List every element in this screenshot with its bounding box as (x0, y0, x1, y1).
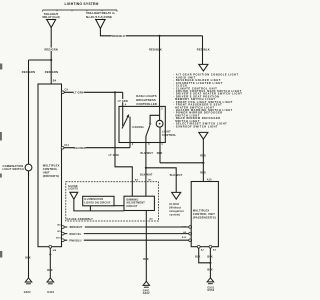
svg-text:LIGHT SWITCH: LIGHT SWITCH (3, 167, 24, 171)
svg-text:LIGHTING SYSTEM: LIGHTING SYSTEM (64, 2, 98, 6)
svg-text:2: 2 (161, 108, 163, 111)
svg-text:(PASSENGER'S): (PASSENGER'S) (193, 215, 216, 219)
svg-text:BLK: BLK (25, 256, 31, 259)
svg-text:A4: A4 (149, 218, 153, 221)
svg-text:G401: G401 (47, 291, 54, 294)
svg-text:BRIGHTNESS: BRIGHTNESS (136, 98, 156, 102)
svg-text:3: 3 (132, 143, 134, 146)
svg-text:G552: G552 (207, 289, 214, 292)
svg-text:RED/GRN: RED/GRN (22, 70, 36, 74)
svg-text:ILLUMINATION: ILLUMINATION (84, 198, 103, 201)
svg-text:RED: RED (200, 171, 206, 174)
svg-text:A3: A3 (213, 248, 217, 251)
svg-text:PNK/BLU: PNK/BLU (69, 239, 81, 242)
svg-text:BLK/WHT: BLK/WHT (141, 152, 154, 155)
svg-text:B6: B6 (58, 225, 62, 227)
svg-text:RED/YEL: RED/YEL (70, 233, 82, 236)
svg-text:A10: A10 (207, 179, 212, 182)
svg-text:RED/BLK: RED/BLK (197, 48, 210, 52)
svg-text:RED/BLK: RED/BLK (112, 34, 125, 38)
svg-text:BLK: BLK (143, 258, 149, 261)
svg-text:B10: B10 (56, 238, 61, 240)
svg-text:B5: B5 (58, 231, 62, 233)
svg-text:CONTROL UNIT: CONTROL UNIT (193, 212, 215, 216)
svg-text:A12: A12 (182, 225, 187, 228)
svg-text:UNIT: UNIT (43, 170, 50, 174)
svg-text:CONTROL: CONTROL (162, 133, 177, 137)
svg-text:DASH LIGHTS: DASH LIGHTS (136, 94, 157, 98)
svg-text:LIGHT: LIGHT (162, 130, 171, 134)
svg-text:RED/GRN: RED/GRN (45, 70, 59, 74)
svg-text:BLK/WHT: BLK/WHT (170, 174, 183, 177)
svg-text:LT GRN: LT GRN (73, 91, 83, 94)
svg-text:RELAY (Coil): RELAY (Coil) (42, 15, 59, 19)
svg-text:RED: RED (200, 154, 206, 157)
svg-text:A10: A10 (182, 236, 187, 239)
svg-text:RED/GRN: RED/GRN (44, 48, 58, 52)
svg-text:LT GRN: LT GRN (118, 100, 128, 103)
svg-text:MULTIPLEX: MULTIPLEX (193, 209, 210, 213)
svg-text:BLK: BLK (207, 255, 213, 258)
svg-text:RED/BLK: RED/BLK (149, 48, 162, 52)
svg-text:BLK: BLK (47, 269, 53, 272)
svg-text:BLK/WHT: BLK/WHT (140, 174, 153, 177)
svg-text:B1: B1 (148, 180, 152, 182)
svg-text:· SUNROOF SWITCH LIGHT: · SUNROOF SWITCH LIGHT (173, 125, 218, 128)
svg-text:navigation: navigation (169, 210, 184, 213)
svg-text:RED: RED (157, 152, 163, 155)
svg-text:CIRCUIT: CIRCUIT (126, 205, 138, 208)
svg-text:M8: M8 (53, 250, 57, 252)
svg-text:B2: B2 (135, 180, 139, 182)
svg-text:1: 1 (161, 143, 163, 146)
svg-text:LIGHTS ON CIRCUIT: LIGHTS ON CIRCUIT (84, 202, 111, 204)
svg-text:GAUGE ASSEMBLY: GAUGE ASSEMBLY (67, 218, 94, 221)
svg-text:No.40 (7.5 A) FUSE: No.40 (7.5 A) FUSE (86, 15, 112, 19)
svg-text:A2: A2 (201, 248, 205, 251)
svg-text:BRN/WHT: BRN/WHT (70, 226, 83, 229)
svg-text:5: 5 (148, 143, 150, 146)
svg-text:BLK: BLK (207, 268, 213, 271)
svg-text:LIGHTS: LIGHTS (68, 188, 78, 191)
svg-text:G402: G402 (24, 291, 31, 294)
svg-text:(DRIVER'S): (DRIVER'S) (43, 174, 60, 178)
svg-text:BLK: BLK (195, 255, 201, 258)
svg-text:B4: B4 (53, 80, 57, 83)
svg-text:system): system) (169, 214, 180, 217)
svg-text:G402: G402 (143, 292, 150, 295)
svg-text:C9: C9 (65, 89, 69, 92)
svg-text:(Without: (Without (169, 206, 181, 209)
svg-text:LT GRN: LT GRN (109, 154, 119, 157)
svg-text:C11: C11 (64, 144, 69, 147)
svg-text:CONTROLLER: CONTROLLER (136, 102, 157, 106)
svg-text:A9: A9 (183, 231, 187, 234)
svg-text:CANCEL: CANCEL (132, 125, 144, 129)
svg-text:MULTIPLEX: MULTIPLEX (43, 164, 60, 168)
svg-text:CLOCK: CLOCK (169, 203, 179, 206)
svg-text:BLU/RED: BLU/RED (74, 147, 86, 150)
svg-text:CONTROL: CONTROL (43, 167, 58, 171)
